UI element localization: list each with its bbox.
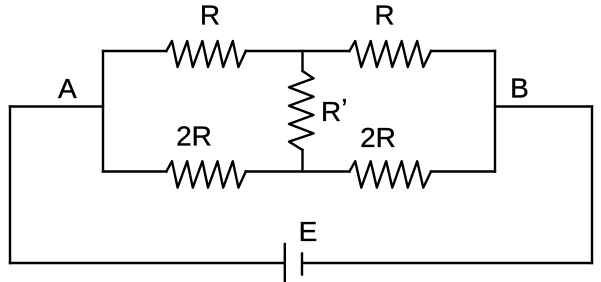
svg-text:R: R <box>374 0 394 31</box>
resistor 2R bottom left <box>166 161 245 187</box>
wire node B to bridge right <box>495 105 592 107</box>
wire right outer vertical <box>591 107 593 264</box>
wire bridge left vertical <box>102 51 104 172</box>
svg-text:2R: 2R <box>360 122 396 153</box>
resistor R' middle <box>289 71 314 150</box>
resistor 2R bottom right <box>350 161 432 187</box>
wire bridge right vertical <box>494 51 496 172</box>
wire bottom rail right <box>431 170 495 172</box>
wire left outer vertical <box>9 107 11 264</box>
wire top rail middle <box>246 50 350 52</box>
wire node A to bridge left <box>10 105 103 107</box>
resistor R1 top left <box>166 41 245 67</box>
svg-text:R’: R’ <box>321 93 347 127</box>
wire top rail left <box>103 50 166 52</box>
wire bottom rail middle <box>246 170 350 172</box>
svg-text:2R: 2R <box>176 121 212 152</box>
battery E short plate <box>301 254 303 275</box>
battery E long plate <box>284 244 286 282</box>
wire battery to bottom right <box>303 262 592 264</box>
svg-text:R: R <box>200 0 220 31</box>
wire bottom rail left <box>103 170 166 172</box>
wire top rail right <box>431 50 495 52</box>
wire middle vertical top <box>301 51 303 71</box>
resistor R2 top right <box>350 41 432 67</box>
svg-text:A: A <box>58 73 77 104</box>
wire bottom left to battery <box>10 262 285 264</box>
svg-text:E: E <box>299 216 318 247</box>
wire middle vertical bottom <box>301 150 303 172</box>
svg-text:B: B <box>510 73 529 104</box>
